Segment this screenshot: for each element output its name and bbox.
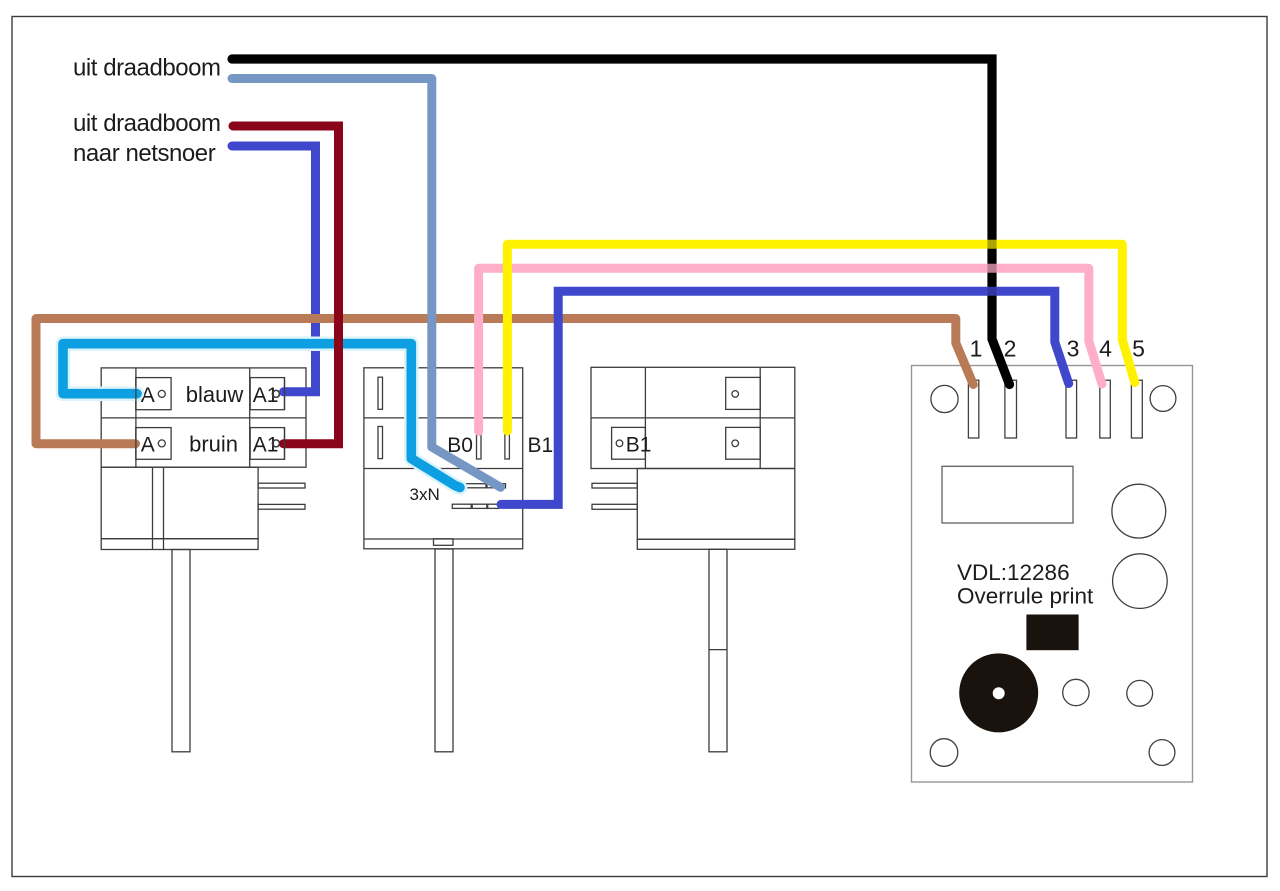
K1 terminal A (blauw row) <box>136 378 171 410</box>
K3 screw hole B1 <box>616 440 623 447</box>
K1 screw hole A1 bruin <box>273 440 280 447</box>
K2 body <box>364 368 523 549</box>
crossing tint: indigo over black <box>987 287 996 296</box>
pad P2 <box>1127 680 1153 706</box>
K1 right prong 1 <box>258 483 305 488</box>
component circle C1 <box>1112 484 1166 538</box>
K1 terminal A1 (blauw row) <box>250 378 284 410</box>
svg-text:1: 1 <box>970 336 983 362</box>
svg-text:3xN: 3xN <box>410 485 440 504</box>
crossing tint: pink over black <box>987 264 996 273</box>
K3 terminal box row 2 right <box>726 427 761 459</box>
K1 right prong 2 <box>258 504 305 509</box>
terminal slot 1 <box>968 380 978 438</box>
mounting hole bottom-left <box>930 739 958 767</box>
terminal slot 4 <box>1100 380 1111 438</box>
K1 screw hole A1 blauw <box>273 390 280 397</box>
PCB VDL:12286 board outline <box>912 366 1193 783</box>
svg-text:5: 5 <box>1132 336 1145 362</box>
svg-text:VDL:12286: VDL:12286 <box>957 560 1070 585</box>
wire pink: K2 B0 slot to PCB pin 4 <box>479 268 1102 431</box>
svg-text:A1: A1 <box>253 434 279 457</box>
K1 screw hole A blauw <box>158 390 165 397</box>
svg-text:B1: B1 <box>626 434 652 457</box>
terminal slot 2 <box>1005 380 1017 438</box>
wire gray-blue: uit draadboom to K2 3xN <box>232 79 501 488</box>
svg-text:2: 2 <box>1004 336 1017 362</box>
terminal slot 3 <box>1066 380 1077 438</box>
K3 mounting leg <box>709 549 727 752</box>
svg-text:3: 3 <box>1067 336 1080 362</box>
svg-text:uit draadboom: uit draadboom <box>73 55 221 82</box>
svg-text:A1: A1 <box>253 384 279 407</box>
relay footprint rectangle on PCB <box>942 466 1073 523</box>
K1 lower body <box>101 467 258 539</box>
K3 lower body <box>637 469 795 540</box>
K1 terminal section body <box>101 368 306 467</box>
K1 terminal A (bruin row) <box>136 428 171 460</box>
K3 terminal box B1 <box>612 427 646 459</box>
relay block K3 <box>591 367 795 752</box>
component circle C2 <box>1113 554 1168 609</box>
mounting hole top-left <box>931 385 958 412</box>
K1 screw hole A bruin <box>158 440 165 447</box>
wire blue-violet: naar netsnoer to K1 A1 blauw <box>232 146 316 392</box>
K3 terminal section body <box>591 367 795 468</box>
K3 left prong 1 <box>592 483 637 488</box>
relay block K1 <box>101 368 306 752</box>
relay block K2 <box>364 368 523 752</box>
wire cyan halo <box>63 344 460 488</box>
terminal slot 5 <box>1131 380 1142 438</box>
K3 terminal box row 1 right <box>726 377 761 409</box>
wire dark-red: uit draadboom to K1 A1 bruin <box>233 126 339 444</box>
K3 screw hole row 2 <box>732 440 739 447</box>
svg-text:B1: B1 <box>528 434 554 457</box>
K3 left prong 2 <box>592 504 637 509</box>
svg-text:naar netsnoer: naar netsnoer <box>73 140 216 167</box>
K1 mounting leg <box>172 550 190 752</box>
svg-text:uit draadboom: uit draadboom <box>73 110 221 137</box>
wire yellow: K2 B1 slot to PCB pin 5 <box>507 244 1134 431</box>
K2 mounting leg <box>435 549 453 752</box>
svg-text:blauw: blauw <box>186 382 244 407</box>
wire cyan: K1 A blauw to K2 3xN <box>63 344 460 488</box>
K1 terminal A1 (bruin row) <box>250 428 284 460</box>
wire indigo: K2 3xN to PCB pin 3 <box>501 291 1069 504</box>
buzzer BZ1 <box>959 653 1038 732</box>
K3 screw hole row 1 <box>732 391 739 398</box>
svg-text:bruin: bruin <box>189 432 238 457</box>
mounting hole top-right <box>1150 386 1176 412</box>
wire brown: K1 A bruin to PCB pin 1 <box>36 319 973 444</box>
K2 left slot row 1 <box>378 377 383 409</box>
K2 terminal bar row A <box>464 484 487 488</box>
K2 slot B1 <box>505 435 510 460</box>
K2 left slot row 2 <box>378 427 383 459</box>
crossing tint: yellow over black <box>987 240 996 249</box>
K2 bottom notch <box>434 539 454 546</box>
svg-text:Overrule print: Overrule print <box>957 584 1094 609</box>
pad P1 <box>1063 679 1089 705</box>
svg-text:A: A <box>141 434 155 457</box>
jumper block (black) <box>1026 615 1078 651</box>
mounting hole bottom-right <box>1149 740 1175 766</box>
K2 slot B0 <box>477 435 482 460</box>
K1 terminal box edges redrawn over wires <box>136 378 285 460</box>
wire black: uit draadboom to PCB pin 2 <box>232 59 1010 385</box>
K2 terminal bar row B (3xN) <box>452 504 471 508</box>
svg-text:4: 4 <box>1099 336 1112 362</box>
